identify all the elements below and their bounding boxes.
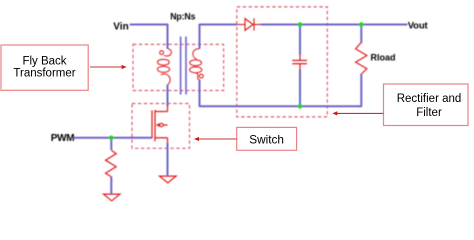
label box Rectifier and Filter	[384, 84, 469, 126]
wire Vin to primary top	[130, 24, 168, 26]
label box Fly Back Transformer	[1, 45, 88, 90]
wire Rload branch lower	[360, 74, 362, 108]
transformer primary winding	[157, 49, 171, 85]
wire secondary bottom drop	[199, 80, 201, 107]
wire diode to Vout	[261, 24, 408, 26]
wire source to ground	[167, 143, 169, 176]
wire bottom rail	[200, 105, 362, 107]
label box Switch	[237, 127, 297, 150]
secondary polarity dot	[199, 74, 203, 78]
arrow flyback label	[90, 65, 127, 69]
wire capacitor branch upper	[299, 25, 301, 56]
primary polarity dot	[160, 51, 164, 55]
resistor R1 (gate)	[106, 150, 117, 177]
svg-text:Vin: Vin	[113, 21, 128, 32]
capacitor C1	[292, 55, 307, 71]
transistor Q1 MOSFET	[152, 105, 168, 144]
wire secondary top rise	[199, 24, 201, 49]
wire PWM to gate	[74, 137, 152, 139]
svg-text:Transformer: Transformer	[13, 68, 75, 80]
transformer secondary winding	[190, 49, 202, 80]
dashed box switch	[132, 104, 190, 149]
junction dot capacitor bottom	[298, 104, 303, 109]
transformer core line right	[185, 37, 187, 95]
wire capacitor branch lower	[299, 70, 301, 107]
ground (gate resistor)	[104, 194, 120, 201]
svg-text:Switch: Switch	[249, 132, 284, 146]
svg-text:Np:Ns: Np:Ns	[170, 11, 195, 21]
junction dot capacitor top	[298, 22, 303, 27]
transistor Q1 body arrow loop	[160, 123, 163, 126]
junction dot PWM node	[109, 136, 114, 141]
wire gate resistor stub upper	[110, 138, 112, 150]
wire secondary top to diode	[200, 24, 238, 26]
resistor Rload	[356, 42, 367, 74]
svg-text:PWM: PWM	[51, 133, 75, 144]
arrow switch label	[194, 137, 237, 141]
wire primary bottom to switch drain	[167, 85, 169, 106]
arrow rectifier label	[332, 111, 383, 115]
transistor Q1 body arrow	[156, 123, 160, 127]
wire Rload branch upper	[360, 25, 362, 44]
wire gate resistor stub lower	[110, 177, 112, 195]
ground (source)	[160, 176, 177, 183]
svg-text:Fly Back: Fly Back	[22, 55, 66, 67]
dashed box rectifier and filter	[237, 7, 327, 117]
diode D1	[237, 18, 261, 30]
junction dot Rload top	[359, 22, 364, 27]
svg-text:Vout: Vout	[408, 21, 429, 32]
svg-text:Rload: Rload	[371, 52, 396, 62]
transformer core line left	[180, 37, 182, 95]
svg-text:Filter: Filter	[416, 107, 442, 119]
svg-text:Rectifier and: Rectifier and	[397, 93, 462, 105]
wire primary top drop	[167, 24, 169, 49]
dashed box flyback transformer	[133, 44, 224, 90]
